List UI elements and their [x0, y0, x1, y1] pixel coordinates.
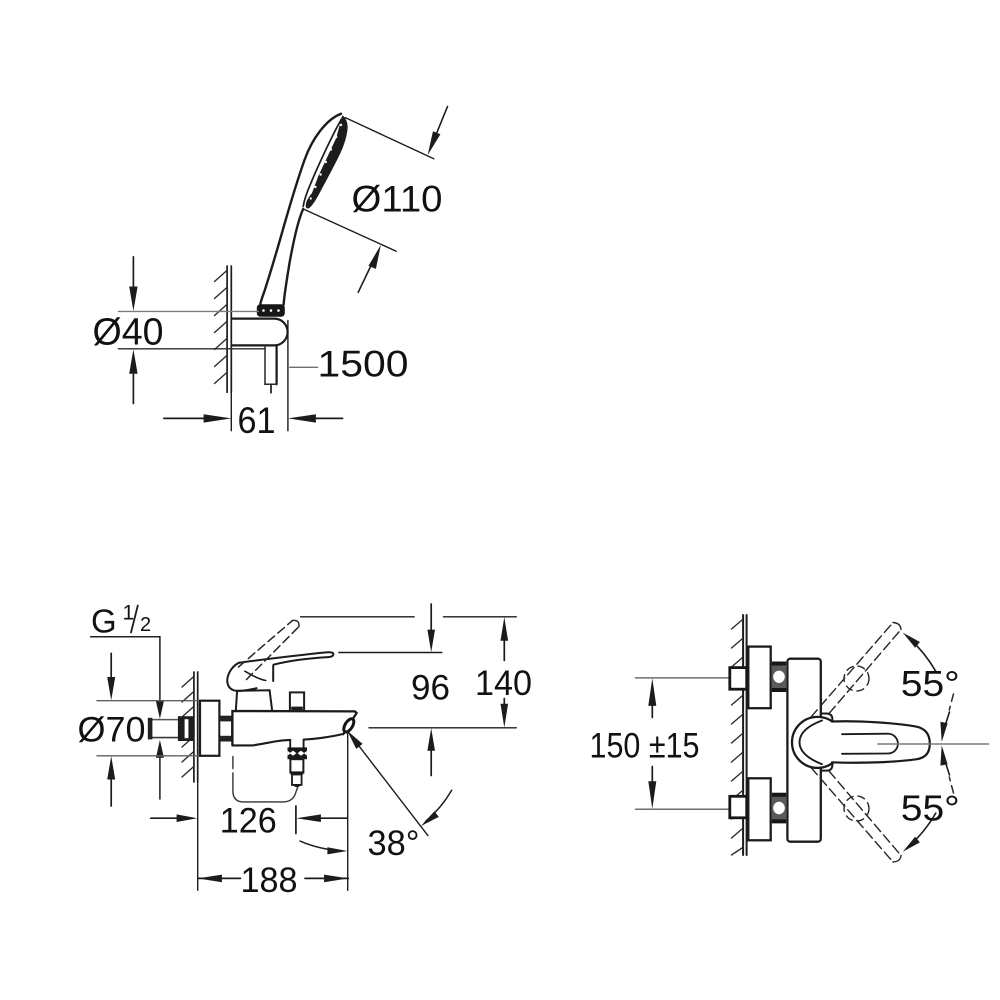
swung lever knob (dashed circle, top): [844, 666, 869, 691]
38-degree slanted ray with arrowhead at spout: [347, 731, 428, 836]
dimension Ø110 lower arrow: [358, 245, 381, 293]
bottom supply nut behind wall: [730, 796, 747, 818]
centre arc arrows at handle axis: [940, 712, 949, 775]
mixer body slab: [787, 659, 820, 842]
dimension 140 vertical with arrows: [501, 617, 509, 727]
handle right edge: [284, 209, 304, 305]
wall holder bracket (capsule): [232, 319, 288, 346]
150 bottom extension line: [636, 808, 730, 810]
dimension 61 left arrow: [164, 414, 232, 422]
wall (double line): [226, 266, 228, 392]
body middle bulge: [821, 714, 833, 771]
dimension 61 right extension line: [287, 321, 289, 431]
bottom S-union nut: [772, 793, 786, 824]
top S-union nut: [772, 662, 786, 693]
wall (double line): [742, 615, 744, 855]
swung lever knob (dashed circle, bottom): [844, 796, 869, 821]
raised lever (dashed): [239, 621, 300, 680]
connection nut: [219, 717, 232, 741]
wall hatching: [182, 677, 193, 777]
svg-text:188: 188: [241, 861, 298, 900]
knob inner curve: [800, 721, 823, 765]
150 top extension line: [636, 677, 730, 679]
hand shower hose path (thin line): [233, 757, 298, 802]
dimension 61 left extension line: [230, 392, 232, 430]
dimension Ø40 lower arrow: [129, 349, 137, 403]
dimension Ø70 lower arrow: [107, 756, 115, 806]
pipe wall nut: [178, 716, 194, 741]
pipe end cap: [148, 718, 153, 740]
lever blade: [239, 652, 333, 681]
dimension Ø70 top extension line: [97, 700, 200, 702]
top supply nut behind wall: [730, 668, 747, 690]
bottom 55-degree arc arrow: [903, 813, 936, 852]
dimension Ø40 bottom extension line: [118, 348, 264, 350]
concealed supply pipe behind wall: [150, 719, 194, 721]
cartridge dome: [236, 690, 272, 711]
shower head spray face (dark lens): [306, 115, 348, 208]
svg-text:38°: 38°: [368, 824, 420, 863]
shower head face rim line: [303, 119, 341, 207]
dimension 150 +-15 arrows: [648, 678, 656, 809]
dimension Ø40 upper arrow: [129, 257, 137, 311]
wall hatching: [215, 271, 227, 384]
lever rear knob: [227, 663, 256, 691]
lever swing dashed rays (bottom): [811, 768, 901, 863]
svg-text:Ø110: Ø110: [352, 179, 443, 220]
dimension Ø110 upper tangent line: [345, 118, 434, 159]
38-degree arc arrow (left of vertical): [300, 841, 347, 854]
svg-text:Ø70: Ø70: [78, 711, 146, 750]
svg-text:Ø40: Ø40: [93, 312, 164, 354]
lever swing dashed rays (top): [811, 623, 901, 718]
G 1/2 lower arrow to pipe: [156, 740, 164, 799]
svg-text:150 ±15: 150 ±15: [590, 727, 700, 766]
top outlet port: [290, 692, 304, 711]
common bottom extension line (spout level): [369, 727, 516, 729]
dimension 96 lower arrow: [427, 728, 435, 775]
dimension Ø110 lower tangent line: [303, 209, 396, 251]
dimension Ø40 top extension line: [118, 310, 258, 312]
dimension 126 left arrow: [151, 814, 198, 822]
svg-text:G: G: [91, 603, 117, 640]
shower hose top: [265, 347, 277, 393]
G 1/2 leader vertical + upper arrow to pipe: [156, 637, 164, 719]
dimension Ø70 bottom extension line: [97, 755, 200, 757]
svg-text:140: 140: [475, 664, 532, 703]
1500 leader line: [290, 366, 318, 368]
G 1/2 underline leader: [91, 636, 160, 638]
lever knob (front view): [792, 717, 843, 768]
mixer body + spout outline: [232, 711, 356, 745]
dimension 140 top extension line: [301, 616, 415, 618]
dimension 188 left extension (wall line continued): [197, 782, 199, 890]
top 55-degree arc arrow: [903, 633, 936, 672]
svg-text:126: 126: [220, 802, 277, 841]
svg-text:1500: 1500: [318, 344, 409, 385]
svg-text:96: 96: [411, 669, 450, 708]
dimension Ø70 upper arrow: [107, 653, 115, 700]
dimension 96 top extension line: [339, 652, 442, 654]
dimension Ø110 upper arrow: [428, 107, 448, 156]
svg-text:2: 2: [140, 614, 151, 636]
handle knurled ring (dark band): [257, 304, 285, 317]
svg-text:55°: 55°: [901, 663, 960, 704]
bottom escutcheon: [748, 778, 770, 840]
38-degree vertical reference / 188 right extension: [347, 732, 349, 891]
svg-text:61: 61: [238, 400, 276, 441]
spray face nozzle dots: [310, 124, 343, 200]
lever arm: [832, 721, 930, 762]
lever arm inner outline: [842, 734, 898, 754]
handle centerline: [878, 743, 989, 745]
escutcheon plate: [200, 701, 219, 756]
dimension 61 right arrow: [288, 414, 343, 422]
svg-text:55°: 55°: [901, 788, 960, 829]
shower head back outline + handle left edge: [260, 114, 341, 305]
diverter pull knob: [288, 740, 308, 787]
spout aerator (tilted ellipse): [342, 717, 356, 733]
38-degree arc arrow (above slanted ray): [421, 790, 452, 826]
wall hatching: [732, 620, 743, 855]
lever neck inner line: [245, 671, 266, 680]
svg-text:1: 1: [123, 602, 135, 625]
wall (double line): [193, 672, 195, 782]
top escutcheon: [748, 647, 770, 709]
dimension 188 line with inside arrows: [198, 875, 349, 883]
label G 1/2: [91, 602, 151, 640]
dimension 126 right tick + arrow: [296, 806, 347, 834]
dimension 96 upper arrow: [427, 604, 435, 652]
